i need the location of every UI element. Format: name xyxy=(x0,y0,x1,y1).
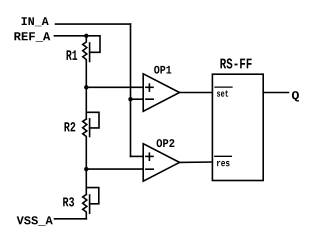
flip-flop RS-FF box xyxy=(212,74,263,180)
label OP1 xyxy=(154,66,171,74)
label R1 xyxy=(67,50,78,59)
node IN_A label xyxy=(22,17,49,26)
wire Q output xyxy=(263,92,288,94)
wire REF_A horizontal xyxy=(54,35,86,37)
wire bus R2 bottom to R3 top xyxy=(85,169,87,194)
node C junction dot R2-R3 xyxy=(84,167,88,171)
node A junction dot IN_A to OP1- and OP2+ xyxy=(128,97,132,101)
pin res overline xyxy=(215,155,232,157)
resistor R2 xyxy=(83,112,99,169)
wire IN_A horizontal xyxy=(56,23,131,25)
label OP2 xyxy=(157,139,175,147)
node REF_A junction dot xyxy=(84,34,88,38)
wire OP2 output to res xyxy=(180,161,213,163)
label R2 xyxy=(64,122,75,131)
pin set overline xyxy=(215,86,232,88)
node Q label xyxy=(292,91,299,101)
wire to OP2 plus input xyxy=(131,155,144,157)
resistor R3 xyxy=(83,188,99,219)
wire bus R1 bottom to R2 top xyxy=(85,87,87,119)
label RS-FF xyxy=(220,58,251,68)
wire OP1 output to set xyxy=(180,92,213,94)
wire node A down to OP2 plus level xyxy=(130,99,132,156)
op-amp OP2 xyxy=(143,144,179,182)
wire node B to OP1 plus input xyxy=(86,86,143,88)
resistor R1 xyxy=(83,36,100,88)
op-amp OP1 xyxy=(143,74,179,112)
node REF_A label xyxy=(14,32,50,41)
label R3 xyxy=(63,197,74,206)
node B junction dot R1-R2 xyxy=(84,85,88,89)
wire VSS_A horizontal xyxy=(55,218,87,220)
pin label set xyxy=(217,90,228,96)
wire node A to OP1 minus input xyxy=(131,98,144,100)
node VSS_A label xyxy=(17,216,53,225)
wire node C to OP2 minus input xyxy=(86,168,143,170)
pin label res xyxy=(217,161,230,166)
wire IN_A vertical down to OP1 minus node xyxy=(130,24,132,99)
